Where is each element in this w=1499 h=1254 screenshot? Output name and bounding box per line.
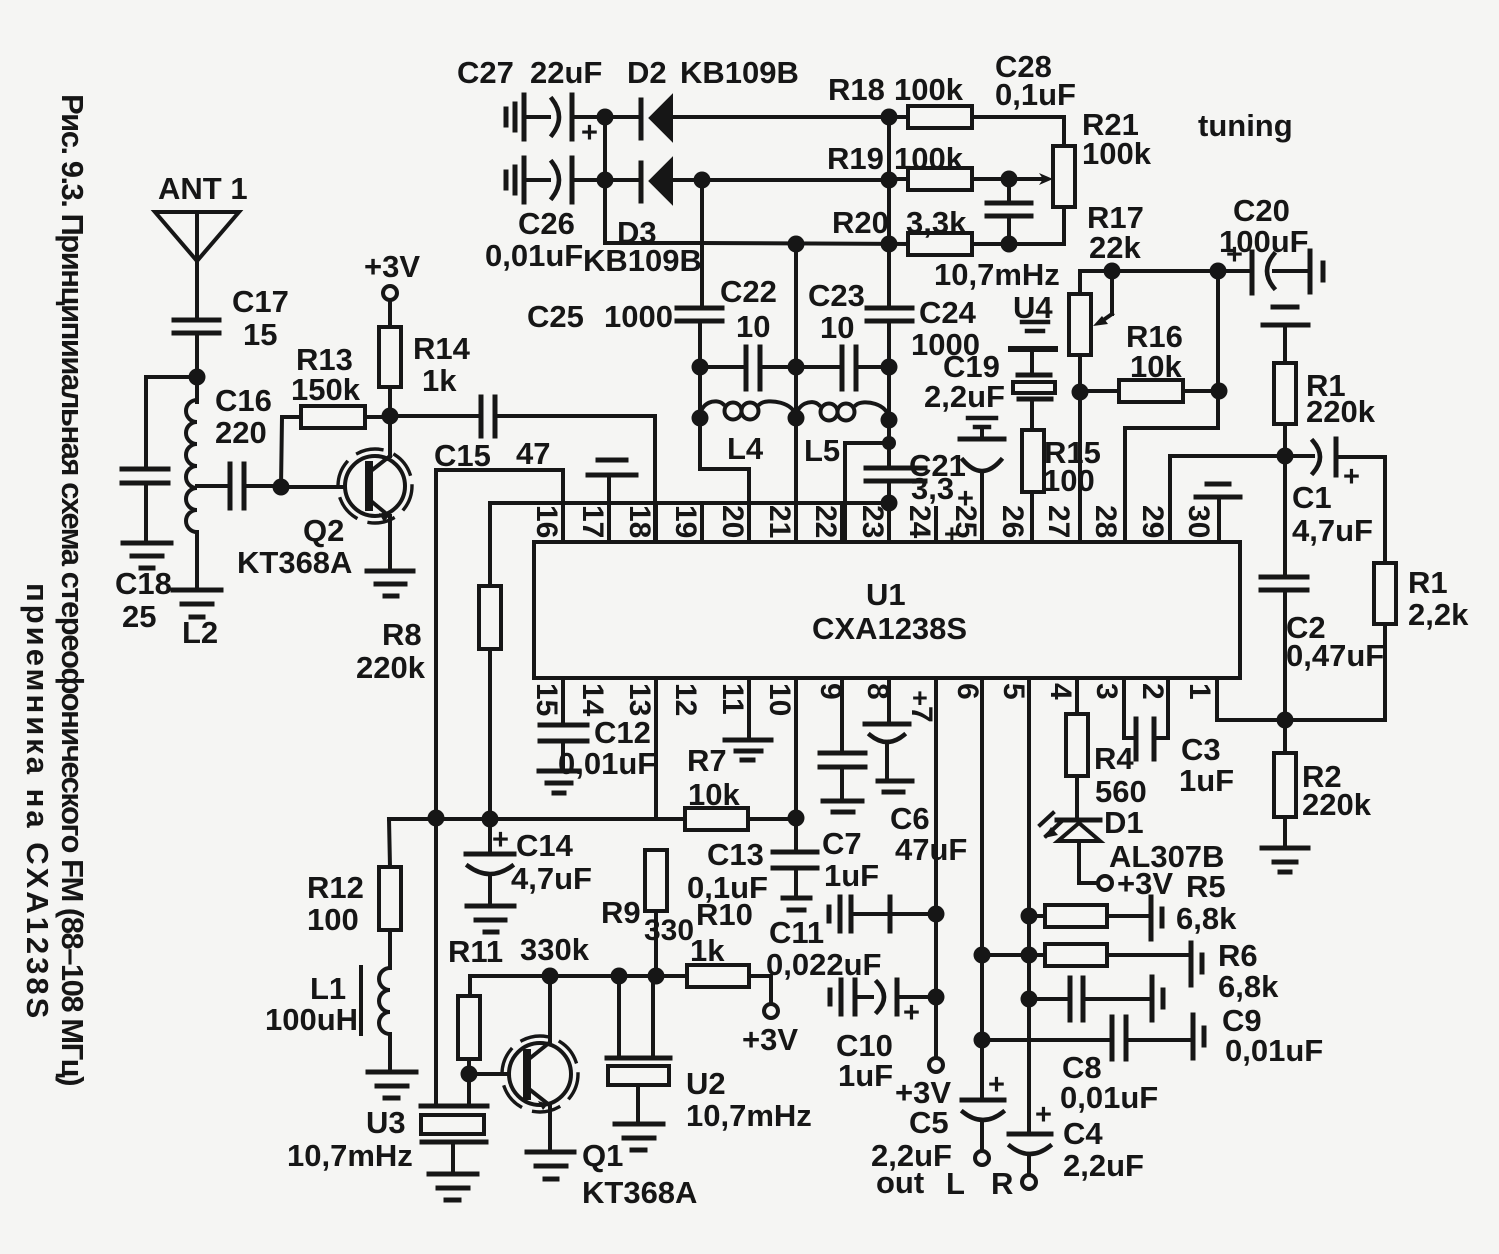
svg-text:10: 10 [736, 309, 770, 344]
resistor R9 330 [601, 850, 694, 976]
wire pin16 from branch [561, 470, 565, 503]
svg-text:R4: R4 [1094, 741, 1134, 776]
svg-text:KT368A: KT368A [237, 545, 352, 580]
capacitor C26 0,01uF [485, 158, 605, 273]
svg-text:out: out [876, 1165, 924, 1200]
wire to C18 [146, 377, 197, 468]
transistor Q2 KT368A [237, 416, 412, 580]
svg-text:приемника на CXA1238S: приемника на CXA1238S [20, 583, 55, 1021]
svg-text:21: 21 [763, 505, 796, 538]
svg-text:0,01uF: 0,01uF [1225, 1033, 1323, 1068]
svg-text:C5: C5 [909, 1105, 949, 1140]
capacitor C21 3,3 [866, 448, 966, 506]
wire pin 7 column [934, 678, 938, 1058]
ground below C18 [123, 543, 171, 568]
svg-text:47: 47 [516, 436, 550, 471]
svg-text:C24: C24 [919, 295, 977, 330]
svg-text:220: 220 [215, 415, 267, 450]
svg-text:C16: C16 [215, 383, 272, 418]
svg-text:C6: C6 [890, 801, 930, 836]
node U2 left drop [611, 968, 628, 985]
node C20 left [1210, 263, 1227, 280]
svg-text:C4: C4 [1063, 1116, 1103, 1151]
resistor R18 100k [828, 72, 1064, 128]
pin 22 stub [840, 503, 844, 542]
ground below Q1 emitter [527, 1152, 574, 1179]
chassis terminal left of C27 [506, 104, 515, 130]
svg-text:R8: R8 [382, 617, 422, 652]
output terminal R [991, 1166, 1036, 1201]
svg-text:100k: 100k [894, 72, 964, 107]
svg-text:C1: C1 [1292, 480, 1332, 515]
svg-text:2,2k: 2,2k [1408, 597, 1469, 632]
svg-text:0,01uF: 0,01uF [558, 746, 656, 781]
svg-text:R20: R20 [832, 205, 889, 240]
capacitor C6 47uF on pin 8 [865, 678, 967, 867]
node pin5 at C9 row [1021, 991, 1038, 1008]
svg-text:R18: R18 [828, 72, 885, 107]
svg-text:2,2uF: 2,2uF [924, 379, 1005, 414]
svg-text:13: 13 [623, 683, 656, 716]
svg-text:2,2uF: 2,2uF [1063, 1148, 1144, 1183]
svg-text:C12: C12 [594, 715, 651, 750]
svg-text:220k: 220k [1302, 787, 1372, 822]
svg-text:6,8k: 6,8k [1176, 901, 1237, 936]
svg-text:2: 2 [1136, 683, 1169, 700]
wire node to pin 29 [1168, 456, 1172, 542]
node C27/C26 column top [597, 109, 614, 126]
svg-text:1: 1 [1183, 683, 1216, 700]
svg-text:22uF: 22uF [530, 55, 602, 90]
wire R17 bottom to pin 27 column [1078, 355, 1082, 542]
svg-text:C22: C22 [720, 274, 777, 309]
ground below C12 [539, 771, 579, 793]
svg-text:+3V: +3V [1117, 866, 1173, 901]
chassis terminal left of C10 [830, 980, 841, 1014]
node bus at L5 row [881, 412, 898, 429]
node pin23 at rail [881, 495, 898, 512]
svg-text:D2: D2 [627, 55, 667, 90]
svg-text:10,7mHz: 10,7mHz [686, 1098, 812, 1133]
inductor L1 100uH [265, 967, 390, 1070]
svg-text:C15: C15 [434, 438, 491, 473]
node R16 right [1211, 383, 1228, 400]
svg-text:0,01uF: 0,01uF [1060, 1080, 1158, 1115]
capacitor C2 0,47uF [1261, 456, 1384, 720]
svg-text:Q2: Q2 [303, 513, 344, 548]
node C22 left [692, 359, 709, 376]
svg-text:C25: C25 [527, 299, 584, 334]
svg-text:10,7mHz: 10,7mHz [934, 257, 1060, 292]
wire D3 row to R19 [702, 178, 889, 182]
node bus at C23 row [881, 359, 898, 376]
svg-text:+3V: +3V [742, 1022, 798, 1057]
svg-text:3,3k: 3,3k [906, 205, 967, 240]
node C11 at pin 7 [928, 906, 945, 923]
svg-text:4: 4 [1044, 683, 1077, 700]
capacitor C1 4,7uF [1292, 439, 1385, 548]
ground below C6 [878, 781, 912, 792]
inductor L5 [796, 402, 889, 468]
wire base node down to U3 [467, 1074, 471, 1104]
wire pin 1 to output node [1217, 678, 1285, 720]
svg-text:26: 26 [996, 505, 1029, 538]
node pin21 column at bus [788, 236, 805, 253]
resistor R8 220k [356, 503, 501, 819]
svg-text:L2: L2 [182, 615, 218, 650]
ground above pin 30 [1196, 484, 1240, 542]
pin 18 stub [654, 503, 658, 542]
svg-text:R14: R14 [413, 331, 471, 366]
chassis terminal right of R5 [1151, 897, 1162, 939]
svg-text:tuning: tuning [1198, 108, 1293, 143]
wire C15 to pin 18 [495, 416, 655, 542]
capacitor C12 0,01uF on pin 15 [540, 678, 656, 781]
wire oscillator bus y976 [470, 974, 687, 978]
svg-text:R19: R19 [827, 141, 884, 176]
svg-text:11: 11 [716, 683, 749, 715]
svg-text:30: 30 [1182, 505, 1215, 538]
node Q1 collector at bus [542, 968, 559, 985]
wire pin comb rail top-left [490, 501, 889, 505]
svg-text:14: 14 [576, 683, 609, 717]
node bus at D3 row [881, 172, 898, 189]
svg-text:20: 20 [716, 505, 749, 538]
svg-text:C20: C20 [1233, 193, 1290, 228]
svg-text:L5: L5 [804, 433, 840, 468]
wire bottom bus y819 [389, 817, 685, 821]
capacitor C16 [197, 383, 281, 508]
pin 25 stub [980, 508, 984, 542]
ground below L1 [368, 1072, 416, 1098]
capacitor C14 4,7uF [466, 819, 592, 904]
pin 17 stub [607, 503, 611, 542]
capacitor C4 2,2uF [1009, 1099, 1144, 1183]
svg-text:C23: C23 [808, 278, 865, 313]
svg-text:10k: 10k [688, 777, 740, 812]
svg-text:U1: U1 [866, 577, 906, 612]
antenna ANT1 [155, 171, 248, 318]
svg-text:4,7uF: 4,7uF [1292, 513, 1373, 548]
svg-text:4,7uF: 4,7uF [511, 861, 592, 896]
svg-text:15: 15 [530, 683, 563, 716]
svg-text:KB109B: KB109B [680, 55, 799, 90]
svg-text:100k: 100k [1082, 136, 1152, 171]
svg-text:16: 16 [530, 505, 563, 538]
svg-text:R12: R12 [307, 870, 364, 905]
power +3V terminal below R10 [742, 1004, 798, 1057]
svg-text:C27: C27 [457, 55, 514, 90]
svg-text:0,1uF: 0,1uF [995, 77, 1076, 112]
svg-text:L4: L4 [727, 431, 764, 466]
svg-text:150k: 150k [291, 372, 361, 407]
svg-text:L1: L1 [310, 971, 346, 1006]
svg-text:24: 24 [903, 505, 936, 539]
pin 24 stub [934, 508, 938, 542]
wire stereo out node row y456 [1170, 454, 1313, 458]
svg-text:47uF: 47uF [895, 832, 967, 867]
capacitor C13 0,1uF on pin 10 [687, 678, 817, 905]
svg-text:C13: C13 [707, 837, 764, 872]
svg-text:1000: 1000 [604, 299, 673, 334]
wire main bus x889 bottom to pin 23 [887, 481, 891, 542]
svg-text:CXA1238S: CXA1238S [812, 611, 967, 646]
svg-text:100uH: 100uH [265, 1002, 358, 1037]
crystal U3 10,7MHz [287, 818, 487, 1173]
svg-text:6: 6 [951, 683, 984, 700]
resistor R16 10k [1080, 319, 1219, 402]
svg-text:100: 100 [1043, 463, 1095, 498]
capacitor C9 0,01uF on pin 5 [1029, 978, 1323, 1068]
power +3V terminal top [364, 249, 420, 327]
wire main bus x889 middle [887, 321, 891, 466]
resistor R1 2,2k [1285, 457, 1469, 720]
svg-text:C14: C14 [516, 828, 574, 863]
svg-text:3: 3 [1090, 683, 1123, 700]
svg-text:29: 29 [1136, 505, 1169, 538]
resistor R2 220k [1274, 720, 1372, 846]
svg-text:1uF: 1uF [838, 1058, 893, 1093]
svg-text:+: + [903, 997, 920, 1029]
svg-text:330: 330 [644, 914, 694, 947]
node pin21 column at L4/L5 [788, 410, 805, 427]
svg-text:0,01uF: 0,01uF [485, 238, 583, 273]
svg-text:18: 18 [623, 505, 656, 538]
node Q2 base junction [273, 479, 290, 496]
svg-text:25: 25 [122, 599, 156, 634]
chassis terminal right of R6 [1191, 943, 1202, 985]
svg-text:+: + [581, 117, 598, 149]
discriminator U4 10,7MHz on pin 26 [1011, 290, 1055, 430]
ground below C7 [823, 801, 862, 812]
capacitor C5 2,2uF [962, 1069, 1005, 1151]
node R17 wiper [1104, 263, 1121, 280]
node pin6 at C8 row [974, 1032, 991, 1049]
svg-text:10: 10 [820, 310, 854, 345]
svg-text:0,47uF: 0,47uF [1286, 638, 1384, 673]
svg-text:+: + [912, 683, 928, 713]
capacitor C24 1000 [867, 295, 980, 362]
svg-text:5: 5 [997, 683, 1030, 700]
svg-text:100: 100 [307, 902, 359, 937]
wire pin 22 link [845, 443, 889, 542]
svg-text:R9: R9 [601, 895, 641, 930]
svg-text:Q1: Q1 [582, 1138, 623, 1173]
capacitor C8 0,01uF on pin 6 [982, 1017, 1191, 1115]
svg-text:19: 19 [669, 505, 702, 538]
resistor R10 1k [687, 897, 771, 1004]
resistor R6 6,8k [982, 938, 1279, 1004]
chassis terminal left of C26 [506, 167, 515, 193]
ground below U2 [615, 1124, 663, 1150]
svg-text:330k: 330k [520, 932, 590, 967]
resistor R20 3,3k [700, 205, 1064, 255]
transistor Q1 KT368A [502, 976, 697, 1210]
node antenna/L2/C18 junction [189, 369, 206, 386]
ground above pin 17 [588, 460, 636, 503]
svg-text:+3V: +3V [364, 249, 420, 284]
svg-text:Рис. 9.3. Принципииальная схем: Рис. 9.3. Принципииальная схема стереофо… [55, 94, 90, 1085]
pin 21 stub [794, 503, 798, 542]
svg-text:1uF: 1uF [824, 858, 879, 893]
output terminal +3V on pin 7 [871, 1058, 952, 1200]
svg-text:R7: R7 [687, 743, 727, 778]
resistor R11 330k [448, 932, 590, 1074]
svg-text:+: + [492, 824, 509, 856]
svg-text:100k: 100k [894, 141, 964, 176]
output terminal L [946, 1151, 989, 1201]
node pin21 column at C23 [788, 359, 805, 376]
svg-text:220k: 220k [356, 650, 426, 685]
svg-text:C26: C26 [518, 206, 575, 241]
resistor R7 10k [685, 743, 796, 830]
svg-text:12: 12 [669, 683, 702, 716]
svg-text:L: L [946, 1166, 965, 1201]
wire C27-C26 link [603, 117, 607, 180]
inductor L4 [700, 401, 796, 466]
capacitor C25 1000 [527, 299, 722, 334]
wire varicap column link [605, 180, 700, 243]
capacitor C28 0,1uF [987, 49, 1076, 244]
ground above R1 220k [1263, 307, 1308, 363]
svg-text:U2: U2 [686, 1066, 726, 1101]
resistor R19 100k [827, 141, 1009, 190]
svg-text:3,3: 3,3 [911, 471, 954, 506]
ground below Q2 emitter [367, 571, 413, 596]
capacitor C20 100uF [1218, 193, 1323, 293]
svg-text:10: 10 [763, 683, 796, 716]
rheostat R17 22k [1069, 200, 1218, 355]
svg-text:R6: R6 [1218, 938, 1258, 973]
node R7 right at pin 10 [788, 810, 805, 827]
chassis terminal right of C9 [1152, 977, 1163, 1020]
wire wiper arrow into R21 [1009, 173, 1053, 185]
capacitor C11 0,022uF [766, 897, 936, 982]
resistor R5 6,8k [1029, 869, 1237, 936]
wire D3 node down to C25 [700, 180, 704, 306]
node C26 output [597, 172, 614, 189]
resistor R14 [379, 327, 471, 416]
svg-text:U4: U4 [1013, 290, 1053, 325]
node R16 left [1072, 384, 1089, 401]
wire C25 down to L4 column / pin 20 [700, 321, 749, 542]
node R8 at bus [482, 811, 499, 828]
svg-text:1k: 1k [422, 363, 457, 398]
svg-text:R1: R1 [1408, 565, 1448, 600]
svg-text:22k: 22k [1089, 230, 1141, 265]
node R9/U2 right drop [648, 968, 665, 985]
resistor R13 [291, 342, 390, 428]
capacitor C15 [434, 397, 550, 473]
wire main bus x889 top [887, 117, 891, 306]
svg-text:R11: R11 [448, 934, 503, 969]
LED D1 AL307B [1040, 805, 1224, 883]
svg-text:560: 560 [1095, 774, 1147, 809]
svg-text:28: 28 [1089, 505, 1122, 538]
ground below R2 [1262, 848, 1308, 872]
node pin1/C2/R1/R2 junction [1277, 712, 1294, 729]
svg-text:22: 22 [809, 505, 842, 538]
diode D3 KB109B [583, 161, 702, 278]
capacitor C7 1uF on pin 9 [820, 678, 879, 893]
capacitor C27 22uF [457, 55, 605, 149]
svg-text:15: 15 [243, 317, 277, 352]
wire junction to Q2 base [281, 485, 345, 489]
svg-text:+: + [944, 519, 960, 549]
capacitor C22 10 [700, 274, 796, 389]
svg-text:23: 23 [856, 505, 889, 538]
svg-text:C3: C3 [1181, 732, 1221, 767]
svg-text:R: R [991, 1166, 1013, 1201]
node Q1 base/U3 junction [461, 1066, 478, 1083]
potentiometer R21 100k tuning [1053, 107, 1152, 244]
resistor R4 560 on pin 4 [1066, 678, 1147, 818]
wire C20 node down through R16 right to pin 28 [1125, 271, 1218, 542]
svg-text:27: 27 [1042, 505, 1075, 538]
node R19 wiper junction [1001, 171, 1018, 188]
svg-text:0,022uF: 0,022uF [766, 947, 881, 982]
wire pin 5 column [1027, 678, 1031, 1132]
svg-text:C17: C17 [232, 284, 289, 319]
svg-text:6,8k: 6,8k [1218, 969, 1279, 1004]
capacitor C17 [174, 284, 289, 377]
capacitor C18 [115, 469, 172, 634]
node C10 at pin 7 [928, 989, 945, 1006]
ground below pin 11 [725, 678, 771, 760]
node bus at pin22 wire [882, 436, 896, 450]
node L4 left [692, 410, 709, 427]
svg-text:C18: C18 [115, 566, 172, 601]
wire pin16 branch column [436, 470, 563, 818]
svg-text:+: + [988, 1069, 1005, 1101]
node C28 bottom at R20 row [1001, 236, 1018, 253]
wire pin 13 to bottom bus [654, 678, 658, 819]
resistor R12 100 [307, 819, 401, 967]
node C1/C2/R1 junction [1277, 448, 1294, 465]
node D3 output [694, 172, 711, 189]
node pin5 at R6 row [1021, 947, 1038, 964]
svg-text:100uF: 100uF [1219, 224, 1309, 259]
svg-text:R5: R5 [1186, 869, 1226, 904]
pin 19 stub [700, 503, 704, 542]
resistor R1 220k [1274, 363, 1376, 456]
svg-text:C11: C11 [769, 915, 824, 950]
resistor R15 100 [1022, 430, 1101, 542]
chassis terminal right of C8 [1193, 1015, 1204, 1058]
node pin5 at R5 row [1021, 908, 1038, 925]
node Q2 collector junction [382, 408, 399, 425]
svg-text:1k: 1k [690, 933, 725, 968]
wire pin21 column [794, 244, 798, 542]
svg-text:0,1uF: 0,1uF [687, 870, 768, 905]
node bus at D2 row [881, 109, 898, 126]
svg-text:ANT 1: ANT 1 [158, 171, 248, 206]
capacitor C10 1uF [836, 980, 936, 1093]
op-amp U1 CXA1238S body [534, 542, 1240, 678]
svg-text:+: + [1035, 1099, 1052, 1131]
ground below C14 [467, 906, 514, 932]
svg-text:10k: 10k [1130, 349, 1182, 384]
crystal U2 10,7MHz [607, 976, 812, 1133]
svg-text:KT368A: KT368A [582, 1175, 697, 1210]
node pin6 at R6 row [974, 947, 991, 964]
svg-text:D1: D1 [1104, 805, 1144, 840]
ground below L2 [173, 590, 221, 617]
svg-text:+: + [1343, 461, 1360, 493]
svg-text:17: 17 [576, 505, 609, 538]
svg-text:220k: 220k [1306, 394, 1376, 429]
svg-text:C7: C7 [822, 826, 862, 861]
